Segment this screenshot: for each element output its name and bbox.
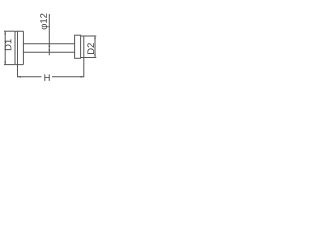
- dimension D1 extension bottom: [4, 64, 15, 66]
- shaft bottom line: [23, 51, 74, 53]
- label H: [44, 74, 49, 81]
- right thin disc face: [83, 36, 85, 57]
- dimension D2 line: [94, 36, 96, 58]
- dimension D1 extension top: [4, 30, 15, 32]
- dimension D2 extension top: [81, 35, 97, 37]
- background: [0, 0, 100, 100]
- dimension D2 extension bottom: [81, 57, 97, 59]
- dimension H extension left: [17, 65, 19, 78]
- label D2: [87, 48, 94, 54]
- left head step line: [17, 31, 19, 64]
- H arrow right: [81, 76, 84, 78]
- dimension phi12 line: [48, 14, 50, 55]
- label phi12: [42, 24, 49, 29]
- shaft top line: [23, 43, 74, 45]
- dimension H extension right: [83, 58, 85, 78]
- phi12 arrow up: [48, 44, 50, 47]
- left head right face: [22, 31, 24, 64]
- D1 arrow up: [4, 31, 6, 34]
- dimension D1 line: [4, 31, 6, 64]
- left head (knob) outline: [15, 31, 23, 64]
- dimension H line right segment: [52, 76, 84, 78]
- phi12 arrow down: [48, 49, 50, 52]
- D1 arrow down: [4, 61, 6, 64]
- H arrow left: [18, 76, 21, 78]
- label D1: [5, 44, 12, 50]
- D2 arrow up: [94, 36, 96, 39]
- right flange: [75, 35, 81, 58]
- D2 arrow down: [94, 55, 96, 58]
- dimension H line left segment: [18, 76, 42, 78]
